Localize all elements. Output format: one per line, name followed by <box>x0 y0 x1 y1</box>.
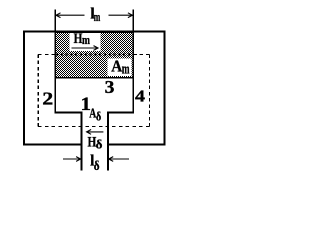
window bottom right step <box>107 112 134 114</box>
svg-text:m: m <box>94 9 101 24</box>
core outer outline <box>24 32 165 145</box>
mean path dashed left side <box>37 54 39 126</box>
window bottom left step <box>55 112 83 114</box>
l-delta dimension right arrow <box>109 157 129 162</box>
svg-text:m: m <box>122 61 130 77</box>
air gap right wall / l-delta right tick <box>107 112 109 171</box>
lm dimension left arrow <box>56 13 85 18</box>
svg-text:4: 4 <box>135 86 146 105</box>
core bottom edge gap mask (air-gap slot cuts bottom limb) <box>82 142 107 146</box>
magnet bottom edge <box>55 77 135 79</box>
mean path dashed top left segment <box>38 53 55 55</box>
svg-text:δ: δ <box>94 159 100 174</box>
Am white label box <box>107 58 131 76</box>
magnet top edge <box>55 31 135 33</box>
mean path dashed top right segment <box>134 53 150 55</box>
svg-text:2: 2 <box>42 88 53 108</box>
H-delta arrow <box>87 130 104 135</box>
svg-text:m: m <box>82 32 90 47</box>
l-delta dimension left arrow <box>63 157 81 162</box>
svg-text:A: A <box>111 57 122 76</box>
magnet left edge / lm left tick <box>54 10 56 113</box>
Hm arrow <box>72 46 99 51</box>
lm dimension right arrow <box>109 13 133 18</box>
air gap left wall / l-delta left tick <box>80 112 82 171</box>
magnet hatched body <box>55 33 133 78</box>
mean path dotted segment through magnet <box>56 54 133 56</box>
mean path dashed bottom side <box>38 125 149 127</box>
magnet right edge / lm right tick <box>132 10 134 113</box>
svg-text:δ: δ <box>96 110 102 124</box>
svg-text:δ: δ <box>96 136 103 151</box>
mean path dashed right side <box>148 54 150 126</box>
Hm white label box <box>70 33 101 51</box>
svg-text:3: 3 <box>105 77 115 97</box>
